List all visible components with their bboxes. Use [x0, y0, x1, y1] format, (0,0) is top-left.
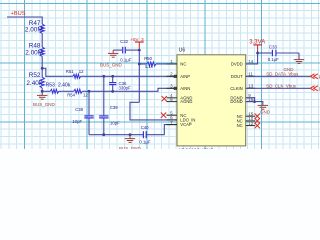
op-amp U6 body [177, 47, 246, 145]
pin 7 VCAP left [167, 120, 192, 127]
wire +BUS down to R47 [41, 17, 43, 25]
no-connect X pin 5 [161, 113, 166, 118]
resistor R54 [67, 89, 88, 97]
wire divider tap jog to AINP [42, 68, 73, 76]
svg-text:C40: C40 [141, 125, 149, 130]
svg-text:C38: C38 [75, 107, 83, 112]
wire DGND pins to ground [246, 98, 255, 102]
resistor R50 [139, 56, 156, 69]
svg-text:330pF: 330pF [119, 85, 132, 90]
svg-text:BUS_GND: BUS_GND [119, 146, 142, 149]
wire DVDD to 3.3VA [246, 51, 258, 64]
svg-text:DGND: DGND [230, 99, 242, 104]
svg-text:0.1µF: 0.1µF [120, 58, 131, 63]
node C33 tee [256, 52, 259, 55]
node junction divider tap [41, 67, 44, 70]
ground GND at C33 [284, 53, 305, 72]
svg-text:VCAP: VCAP [180, 122, 192, 127]
svg-text:0.1µF: 0.1µF [268, 57, 279, 62]
wire DOUT SD_DATA_Vbus [246, 75, 311, 77]
wire R50 to pin1 [156, 63, 177, 65]
pin 8 AGND left [167, 97, 193, 104]
svg-text:SD_DATA_Vbus: SD_DATA_Vbus [266, 72, 299, 77]
power symbol 3.3VA [249, 40, 265, 52]
port chevron SD_DATA_Vbus [310, 74, 314, 79]
capacitor C40 [139, 125, 150, 144]
no-connect X pins 4/8 [162, 96, 167, 101]
wire +5V vertical [138, 50, 140, 102]
no-connect X pin 10 [255, 118, 260, 123]
wire CLKIN SD_CLK_Vbus [246, 87, 311, 89]
svg-text:NC: NC [180, 62, 186, 67]
pin 3 AINN left [167, 84, 191, 91]
pin 16 DGND right [230, 97, 255, 104]
svg-text:CLKIN: CLKIN [230, 86, 242, 91]
svg-text:1.1k: 1.1k [145, 64, 154, 69]
svg-text:U6: U6 [179, 47, 186, 53]
pin 6 LDO_IN left [167, 115, 196, 122]
pin 5 NC left [167, 110, 187, 117]
svg-text:SD_CLK_Vbus: SD_CLK_Vbus [266, 84, 296, 89]
resistor R47 [25, 20, 44, 34]
node C39 bottom [102, 133, 105, 136]
svg-text:R48: R48 [29, 43, 41, 50]
resistor R52 [26, 72, 44, 88]
svg-text:C32: C32 [120, 39, 128, 44]
capacitor C33 [258, 44, 299, 62]
svg-text:R53: R53 [46, 83, 55, 89]
svg-text:GND: GND [260, 110, 271, 115]
pin 14 DVDD right [231, 59, 255, 66]
node R53 tee [41, 90, 44, 93]
svg-text:R52: R52 [29, 72, 41, 79]
wire LDO jog [130, 102, 177, 120]
wire C40 to VCAP pin7 [147, 125, 177, 135]
pin 2 connection box [174, 75, 176, 77]
resistor R53 [46, 83, 71, 94]
wire gnd to R53 [42, 90, 50, 92]
background grid [0, 0, 320, 152]
svg-text:AINP: AINP [180, 74, 190, 79]
pin 10 NC right [237, 116, 256, 123]
svg-text:12: 12 [79, 69, 84, 74]
ground BUS_GND at C32 [100, 50, 123, 67]
svg-text:12: 12 [248, 121, 254, 126]
svg-text:R51: R51 [66, 69, 74, 74]
capacitor C39 [99, 76, 120, 134]
power symbol +BUS [11, 11, 26, 17]
node R50 tee [138, 63, 141, 66]
pin 9 DGND right [230, 93, 255, 100]
wire R53-R54 [59, 90, 74, 92]
node C36 tap on AINP [111, 75, 114, 78]
wire AINN to pin3 [82, 88, 177, 91]
svg-text:14: 14 [248, 59, 254, 64]
svg-text:R54: R54 [67, 92, 75, 97]
pin 12 NC right [237, 121, 256, 128]
resistor R48 [25, 43, 44, 57]
capacitor C38 [72, 91, 93, 134]
svg-text:DOUT: DOUT [231, 74, 243, 79]
svg-text:0.1µF: 0.1µF [139, 139, 150, 144]
ground BUS_GND bottom [119, 135, 142, 152]
wire R52 to ground tee [41, 88, 43, 95]
no-connect X pin 12 [255, 123, 260, 128]
resistor R51 [66, 69, 84, 78]
svg-text:2.00M: 2.00M [25, 50, 43, 57]
svg-text:2.40k: 2.40k [58, 83, 71, 89]
svg-text:C39: C39 [110, 105, 118, 110]
node C36 bottom tap [111, 90, 114, 93]
svg-text:+5V_3: +5V_3 [130, 37, 144, 42]
svg-text:BUS_GND: BUS_GND [100, 62, 123, 67]
ground BUS_GND left [33, 95, 56, 107]
no-connect X pin 15 [255, 114, 260, 119]
node C39 tap on AINP [102, 75, 105, 78]
wire R48 to junction [41, 57, 43, 78]
node rail ground tee [129, 133, 132, 136]
pin 3 connection box [174, 87, 176, 89]
pin 13 CLKIN right [230, 84, 255, 91]
wire bottom rail [89, 134, 143, 136]
svg-text:AINN: AINN [180, 86, 190, 91]
wire AINP to pin2 [81, 75, 177, 77]
pin 4 AGND left [167, 93, 193, 100]
svg-text:BUS_GND: BUS_GND [33, 102, 56, 107]
svg-text:AGND: AGND [180, 99, 192, 104]
capacitor C36 [109, 76, 131, 91]
svg-text:2.00M: 2.00M [25, 26, 43, 33]
power symbol +5V_3 [130, 37, 144, 50]
pin 11 DOUT right [231, 72, 255, 79]
svg-text:10pF: 10pF [110, 120, 120, 125]
svg-text:12: 12 [83, 92, 88, 97]
ground GND digital [258, 105, 271, 114]
svg-text:10pF: 10pF [72, 119, 82, 124]
svg-text:+BUS: +BUS [11, 11, 26, 17]
node +5V junction [138, 49, 141, 52]
wire R47-R48 [41, 34, 43, 48]
pin 2 AINP left [167, 72, 191, 79]
svg-text:2.40k: 2.40k [26, 80, 42, 87]
svg-text:C33: C33 [269, 44, 277, 49]
capacitor C32 [113, 39, 139, 63]
pin 15 NC right [237, 111, 256, 118]
wire +BUS horizontal [7, 16, 42, 18]
node C38 tap [88, 90, 91, 93]
svg-text:R50: R50 [144, 56, 152, 61]
svg-text:NC: NC [237, 123, 243, 128]
svg-text:DVDD: DVDD [231, 62, 243, 67]
port chevron SD_CLK_Vbus [310, 86, 314, 91]
pin 1 NC left [167, 59, 187, 66]
